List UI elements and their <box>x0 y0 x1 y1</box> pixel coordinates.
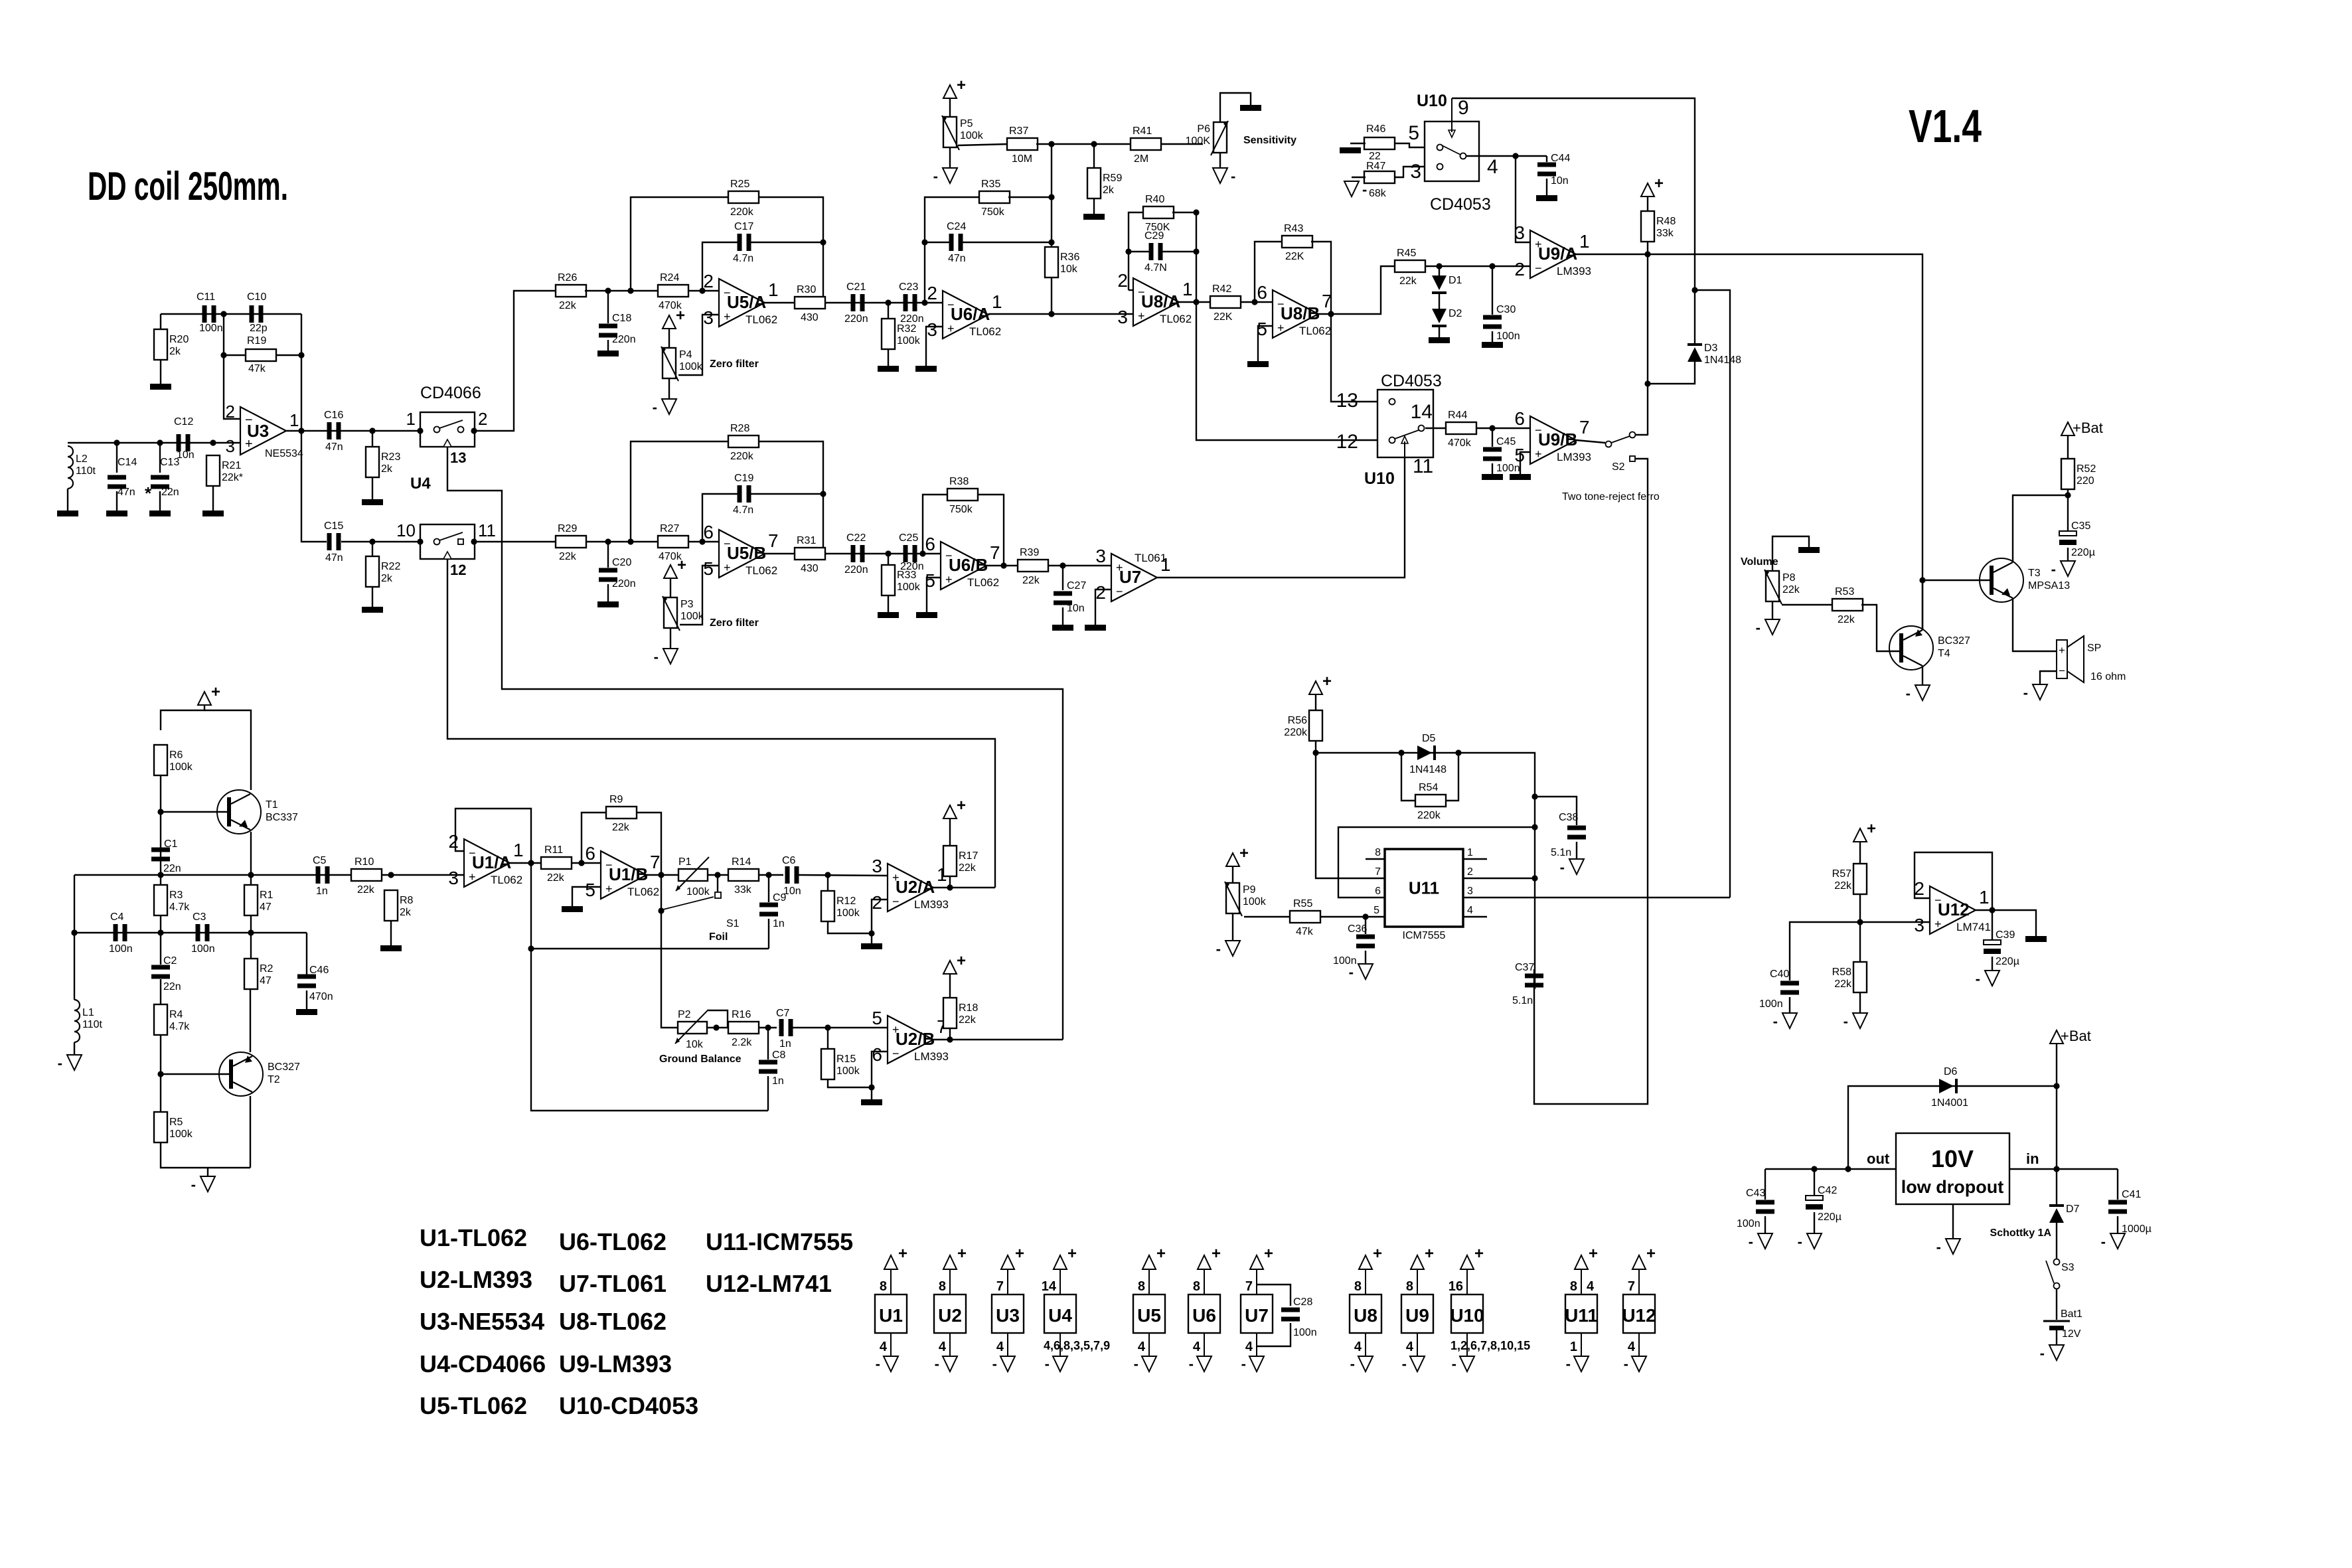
diode D1 <box>1432 275 1462 294</box>
wire U6A pin3 gnd <box>926 327 943 366</box>
wire R25 loop <box>631 197 729 291</box>
wire R36 bot <box>1051 277 1052 314</box>
op-amp U9/B <box>1514 408 1591 465</box>
ground P3 minus <box>654 649 678 665</box>
svg-text:5: 5 <box>1408 122 1419 144</box>
svg-text:C11: C11 <box>196 291 215 303</box>
svg-text:R19: R19 <box>247 335 266 347</box>
capacitor C19 <box>733 473 753 516</box>
svg-text:22k: 22k <box>959 862 977 874</box>
wire C24 loop left <box>925 242 949 243</box>
wire left rail <box>74 875 75 1000</box>
svg-text:33k: 33k <box>734 884 752 896</box>
svg-text:-: - <box>1749 1233 1753 1250</box>
resistor R20 <box>154 329 189 360</box>
label CD4053 bottom <box>1381 372 1442 390</box>
IC U10 switch top <box>1408 97 1498 183</box>
diode D7 <box>2049 1204 2080 1223</box>
svg-text:C2: C2 <box>163 955 177 967</box>
svg-text:−: − <box>892 895 900 908</box>
power pins U1 <box>875 1245 907 1372</box>
ground P6 minus <box>1213 168 1235 185</box>
svg-text:14: 14 <box>1411 401 1433 423</box>
svg-text:2: 2 <box>872 892 882 913</box>
junction C36 node <box>1362 913 1368 919</box>
svg-text:220k: 220k <box>1417 810 1441 821</box>
svg-text:C4: C4 <box>110 911 124 923</box>
power P9 plus <box>1226 844 1249 866</box>
svg-text:1N4001: 1N4001 <box>1931 1097 1968 1109</box>
svg-text:R1: R1 <box>260 890 274 901</box>
capacitor C9 <box>759 892 787 929</box>
svg-text:P3: P3 <box>680 599 694 610</box>
wire P5 top <box>949 98 951 117</box>
ground under C14 <box>106 510 127 516</box>
svg-text:7: 7 <box>1245 1279 1253 1294</box>
wire C28 net2 <box>1257 1323 1291 1346</box>
label CD4066 <box>420 384 481 402</box>
svg-text:R11: R11 <box>544 844 563 856</box>
ground under C44 <box>1536 195 1557 201</box>
capacitor C24 <box>947 221 966 264</box>
analog switch U4 switch A <box>420 412 475 447</box>
wire C8 bot <box>767 1076 769 1111</box>
wire P4 wiper wire <box>678 315 719 375</box>
svg-text:-: - <box>2101 1233 2106 1250</box>
svg-text:R42: R42 <box>1212 283 1231 295</box>
junction T1 base node <box>157 809 163 815</box>
svg-text:4: 4 <box>1467 905 1473 916</box>
wire R42-pin6 <box>1240 301 1273 303</box>
resistor R47 <box>1364 161 1395 199</box>
resistor R9 <box>606 794 637 833</box>
resistor R26 <box>556 272 586 311</box>
junction input-R21 <box>210 439 216 445</box>
svg-text:R33: R33 <box>897 570 916 581</box>
junction x1584 top <box>1048 141 1054 147</box>
wire U10a out <box>1466 155 1547 157</box>
resistor R2 <box>244 959 274 989</box>
wire R9 right <box>636 813 661 875</box>
resistor R38 <box>947 476 978 515</box>
wire R23 stub <box>372 431 373 447</box>
svg-text:C22: C22 <box>846 532 866 544</box>
svg-text:-: - <box>1231 168 1235 185</box>
junction C27 node <box>1059 562 1065 568</box>
svg-text:-: - <box>1798 1233 1802 1250</box>
svg-text:100k: 100k <box>897 582 921 593</box>
wire U1B pin5 gnd <box>572 887 601 906</box>
parts list column 1 <box>420 1224 546 1419</box>
svg-text:R30: R30 <box>797 284 816 295</box>
op-amp U5/A <box>703 271 778 328</box>
svg-text:LM393: LM393 <box>1557 451 1591 463</box>
wire pin8 stub <box>1366 858 1385 860</box>
svg-text:−: − <box>1116 585 1123 598</box>
ground R58 minus <box>1843 1013 1867 1030</box>
svg-text:R59: R59 <box>1103 173 1122 184</box>
wire P1-R14 <box>708 874 729 876</box>
svg-text:4: 4 <box>1193 1340 1201 1354</box>
svg-text:+: + <box>1067 1245 1077 1263</box>
wire C6-pin3 <box>799 875 888 876</box>
ground under R21 <box>202 510 224 516</box>
svg-text:U6/B: U6/B <box>949 555 988 575</box>
ground P6 top bar <box>1240 105 1261 111</box>
ground P9 minus <box>1216 941 1240 957</box>
svg-text:+: + <box>1425 1245 1434 1263</box>
wire R45 row <box>1425 266 1530 267</box>
svg-text:100n: 100n <box>1293 1327 1317 1338</box>
wire P6 top <box>1220 93 1251 122</box>
svg-text:47n: 47n <box>948 253 966 264</box>
wire C15 row <box>341 541 420 542</box>
resistor R55 <box>1290 898 1320 937</box>
svg-text:220n: 220n <box>612 334 636 345</box>
svg-text:+: + <box>1867 820 1876 838</box>
wire R43 loop <box>1255 242 1283 302</box>
svg-text:4: 4 <box>1245 1340 1253 1354</box>
svg-text:5: 5 <box>585 880 595 900</box>
wire R11-pin6 <box>571 862 601 864</box>
wire C28 net <box>1257 1285 1291 1306</box>
junction C19 node <box>699 538 705 544</box>
label Ground Balance <box>659 1054 742 1065</box>
capacitor C39 <box>1984 929 2019 967</box>
wire in row <box>2009 1168 2118 1170</box>
wire bat down <box>2056 1044 2057 1204</box>
label out <box>1867 1150 1890 1167</box>
wire P9 bot <box>1232 913 1233 941</box>
wire U1A out <box>510 862 542 864</box>
svg-text:C7: C7 <box>776 1008 790 1019</box>
svg-text:+: + <box>957 1245 967 1263</box>
wire R5 bot <box>161 1142 250 1168</box>
wire C36 bot <box>1365 951 1366 964</box>
svg-text:10n: 10n <box>177 449 195 461</box>
title text <box>88 164 288 208</box>
capacitor C5 <box>313 855 330 897</box>
svg-text:C43: C43 <box>1746 1188 1765 1199</box>
wire SP minus <box>2040 671 2057 684</box>
svg-text:C42: C42 <box>1818 1185 1837 1196</box>
svg-text:P6: P6 <box>1197 123 1210 135</box>
wire C36 stub <box>1365 917 1366 934</box>
junction R12 node <box>824 872 830 878</box>
ground under D2 <box>1429 337 1450 343</box>
junction row2 R1 <box>248 929 254 935</box>
svg-text:U5/A: U5/A <box>727 292 766 312</box>
svg-text:+: + <box>1277 321 1285 335</box>
wire C41 bot <box>2117 1216 2118 1233</box>
svg-text:4: 4 <box>1628 1340 1636 1354</box>
wire R48 bot <box>1647 242 1648 254</box>
junction S1 node <box>658 907 664 913</box>
resistor R21 <box>206 455 243 486</box>
wire P3 top <box>670 578 671 597</box>
IC 10V regulator <box>1896 1133 2009 1204</box>
ground R46 gnd <box>1340 147 1361 153</box>
svg-text:U11: U11 <box>1565 1305 1598 1326</box>
svg-text:3: 3 <box>1117 307 1128 327</box>
svg-text:3: 3 <box>1410 161 1421 183</box>
battery Bat1 <box>2043 1308 2082 1340</box>
potentiometer P1 <box>676 856 710 898</box>
transistor T3 <box>1980 558 2070 602</box>
switch S2 <box>1606 432 1636 473</box>
svg-text:U5: U5 <box>1137 1305 1161 1326</box>
svg-text:5: 5 <box>1373 905 1379 916</box>
power bat T3 <box>2061 422 2075 435</box>
svg-text:NE5534: NE5534 <box>265 448 303 459</box>
svg-text:22K: 22K <box>1214 311 1233 323</box>
wire R53-T4 <box>1861 605 1899 651</box>
svg-text:U8: U8 <box>1354 1305 1377 1326</box>
svg-text:+: + <box>1474 1245 1484 1263</box>
power pins U8 <box>1350 1245 1382 1372</box>
svg-text:10n: 10n <box>783 886 801 897</box>
resistor R32 <box>882 319 921 349</box>
wire x800 down <box>531 863 768 1111</box>
resistor R45 <box>1395 248 1425 287</box>
svg-text:22k: 22k <box>1834 880 1852 892</box>
U11 pin labels <box>1373 847 1473 916</box>
svg-text:C40: C40 <box>1770 969 1789 980</box>
ground U2A gnd <box>861 943 882 949</box>
junction U5A out node <box>820 299 826 305</box>
svg-text:750k: 750k <box>949 504 973 515</box>
wire x1802 vert <box>1196 212 1377 440</box>
ground U6B pin5 <box>916 612 937 618</box>
svg-text:14: 14 <box>1042 1279 1057 1294</box>
capacitor C22 <box>844 532 868 576</box>
svg-text:R38: R38 <box>949 476 969 487</box>
capacitor C28 <box>1281 1296 1317 1338</box>
wire R58 bot <box>1859 992 1861 1013</box>
svg-text:47n: 47n <box>325 552 343 564</box>
resistor R54 <box>1415 782 1446 821</box>
svg-text:1: 1 <box>768 279 779 300</box>
ground T4 minus <box>1906 685 1930 702</box>
wire R3 stub <box>160 875 161 885</box>
wire main row <box>74 874 464 876</box>
inductor L1 <box>74 1000 103 1042</box>
wire R47 right <box>1394 167 1425 177</box>
wire D1 stub <box>1439 266 1440 275</box>
resistor R40 <box>1143 194 1174 233</box>
svg-text:C30: C30 <box>1496 304 1516 315</box>
resistor R23 <box>366 447 400 477</box>
wire R33 gnd <box>888 595 889 612</box>
wire P4 top <box>668 329 670 348</box>
wire R33 stub <box>888 554 889 565</box>
svg-text:V1.4: V1.4 <box>1909 100 1982 152</box>
capacitor C15 <box>324 520 343 564</box>
wire P8 top <box>1772 536 1809 571</box>
analog switch U4 switch B <box>420 524 475 559</box>
svg-text:R40: R40 <box>1145 194 1164 205</box>
capacitor C29 <box>1144 230 1167 274</box>
wire R32 gnd <box>888 349 889 366</box>
svg-text:2: 2 <box>1467 866 1473 878</box>
op-amp U6/B <box>925 534 1000 591</box>
svg-text:10k: 10k <box>686 1039 704 1050</box>
svg-text:U12-LM741: U12-LM741 <box>706 1270 832 1297</box>
svg-text:12: 12 <box>450 562 466 578</box>
wire C2-R4 <box>160 979 161 1004</box>
label Volume <box>1741 556 1778 568</box>
svg-text:R48: R48 <box>1656 216 1676 227</box>
resistor R15 <box>821 1049 860 1079</box>
svg-text:-: - <box>1350 1356 1355 1372</box>
wire pin2 wire <box>1463 878 1535 879</box>
wire U8A pin2 net <box>1129 212 1144 290</box>
junction C9 node <box>765 872 771 878</box>
svg-text:220n: 220n <box>612 578 636 589</box>
svg-text:C25: C25 <box>899 532 918 544</box>
power +Bat main <box>2050 1030 2063 1044</box>
svg-text:430: 430 <box>801 563 819 574</box>
junction pin2 dot <box>471 428 477 433</box>
svg-text:P5: P5 <box>960 118 973 129</box>
junction D6 out node <box>1845 1166 1851 1172</box>
ground C36 minus <box>1349 964 1373 980</box>
potentiometer P4 <box>661 347 703 381</box>
svg-text:low dropout: low dropout <box>1901 1177 2003 1197</box>
svg-text:R54: R54 <box>1419 782 1438 793</box>
svg-text:BC337: BC337 <box>266 812 298 823</box>
wire fb left vert <box>224 314 240 419</box>
svg-text:R31: R31 <box>797 535 816 546</box>
resistor R44 <box>1446 410 1476 449</box>
wire R56 bot <box>1316 741 1385 878</box>
junction row2 mid <box>157 929 163 935</box>
wire C39 bot <box>1992 957 1993 971</box>
wire R18 bot <box>949 1028 951 1040</box>
resistor R4 <box>154 1004 190 1035</box>
svg-text:2: 2 <box>226 402 235 422</box>
svg-text:DD coil 250mm.: DD coil 250mm. <box>88 164 288 208</box>
wire C29 right <box>1162 251 1196 252</box>
junction D6 node <box>2053 1083 2059 1089</box>
svg-text:U9/B: U9/B <box>1538 430 1577 449</box>
wire T2 emitter <box>250 989 251 1052</box>
svg-text:4: 4 <box>1487 156 1498 178</box>
op-amp U1/B <box>585 843 660 900</box>
junction D3 bottom node <box>1644 380 1650 386</box>
svg-text:+: + <box>945 573 953 586</box>
svg-text:-: - <box>2040 1345 2045 1362</box>
wire R32 stub <box>888 303 889 319</box>
ground P4 minus <box>653 399 676 416</box>
svg-text:-: - <box>653 399 657 416</box>
svg-text:-: - <box>2051 561 2056 578</box>
wire C7-pin5 <box>793 1027 888 1028</box>
parts list column 2 <box>559 1228 698 1419</box>
svg-text:7: 7 <box>1322 291 1332 311</box>
svg-text:220µ: 220µ <box>1996 956 2019 967</box>
svg-text:C14: C14 <box>118 457 137 468</box>
junction R35 node <box>921 299 927 305</box>
wire input row <box>68 442 240 443</box>
svg-text:6: 6 <box>703 522 714 542</box>
svg-text:Ground Balance: Ground Balance <box>659 1054 742 1065</box>
wire U4A ctrl <box>447 447 1063 1040</box>
svg-text:U3: U3 <box>247 421 269 441</box>
wire U12 fb <box>1915 852 1992 910</box>
wire T1 base wire <box>161 811 229 813</box>
svg-text:22k: 22k <box>1022 575 1040 586</box>
transistor T1 <box>217 790 298 834</box>
svg-text:8: 8 <box>1138 1279 1145 1294</box>
wire C17 loop <box>702 242 738 291</box>
svg-text:100k: 100k <box>897 335 921 347</box>
wire fb right vert <box>301 314 302 431</box>
svg-text:U8/B: U8/B <box>1281 303 1320 323</box>
svg-text:C5: C5 <box>313 855 327 866</box>
svg-text:LM393: LM393 <box>1557 265 1591 277</box>
wire pin4 stub <box>1463 916 1487 917</box>
capacitor C36 <box>1333 923 1375 967</box>
wire R16-C7 <box>758 1027 777 1028</box>
resistor R18 <box>943 998 978 1028</box>
svg-text:U8-TL062: U8-TL062 <box>559 1308 666 1335</box>
svg-text:6: 6 <box>1514 408 1525 429</box>
wire U2A out <box>933 887 995 888</box>
junction U3 out node <box>298 428 304 433</box>
wire D3 stub <box>1694 290 1695 343</box>
wire R35 loop left <box>925 197 980 303</box>
svg-text:+: + <box>211 683 220 701</box>
junction R33 node <box>885 550 891 556</box>
svg-text:10n: 10n <box>1551 175 1569 187</box>
svg-text:7: 7 <box>1579 417 1590 437</box>
wire U5B out row <box>765 553 941 554</box>
potentiometer P5 <box>942 116 984 150</box>
svg-text:SP: SP <box>2087 643 2101 654</box>
power pins U10 <box>1449 1245 1530 1372</box>
wire R52 top <box>2067 435 2069 459</box>
label U10 top <box>1417 92 1447 110</box>
svg-text:4.7n: 4.7n <box>733 253 753 264</box>
svg-text:R32: R32 <box>897 323 916 335</box>
switch S3 <box>2046 1259 2075 1289</box>
wire T2 collector <box>250 1096 251 1168</box>
svg-text:1N4148: 1N4148 <box>1409 764 1447 775</box>
label Sensitivity <box>1243 135 1296 146</box>
svg-text:R8: R8 <box>400 895 414 906</box>
svg-text:100k: 100k <box>680 611 704 622</box>
svg-text:4: 4 <box>996 1340 1004 1354</box>
ground under R23 <box>362 499 383 505</box>
svg-text:D3: D3 <box>1704 343 1718 354</box>
label Schottky <box>1990 1227 2052 1239</box>
svg-text:R17: R17 <box>959 850 978 862</box>
junction C8 node <box>765 1024 771 1030</box>
ground under L2 <box>57 510 78 516</box>
svg-text:+: + <box>1322 672 1332 690</box>
svg-text:R35: R35 <box>981 179 1000 190</box>
wire R38 loop <box>923 495 948 554</box>
capacitor C2 <box>151 955 181 992</box>
svg-text:-: - <box>1134 1356 1138 1372</box>
wire U8B out <box>1318 266 1396 314</box>
wire R59 stub <box>1093 144 1095 168</box>
wire R28 right <box>758 441 823 554</box>
op-amp U2/A <box>872 856 949 913</box>
wire T2 base wire <box>161 1073 231 1075</box>
svg-text:R47: R47 <box>1366 161 1385 172</box>
